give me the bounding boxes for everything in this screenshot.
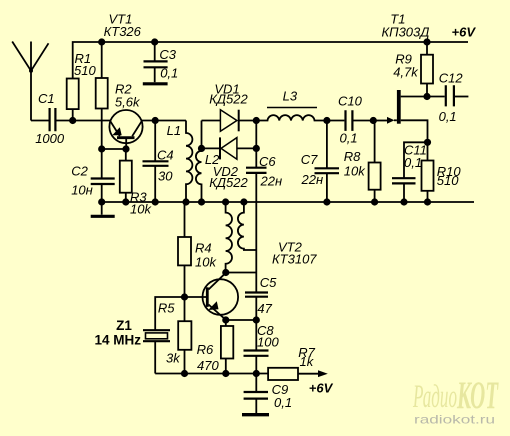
- svg-text:КД522: КД522: [209, 175, 248, 190]
- capacitor C1: [35, 91, 65, 146]
- node rail junctions: [98, 198, 431, 205]
- svg-text:0,1: 0,1: [160, 65, 178, 80]
- node C4 top junction: [152, 117, 159, 124]
- svg-text:0,1: 0,1: [404, 155, 422, 170]
- svg-text:R6: R6: [197, 342, 214, 357]
- capacitor C8: [244, 320, 280, 374]
- svg-text:C1: C1: [38, 91, 55, 106]
- capacitor C4: [143, 121, 174, 203]
- svg-text:510: 510: [437, 173, 459, 188]
- capacitor C9: [244, 374, 292, 410]
- svg-text:47: 47: [257, 301, 272, 316]
- svg-text:КД522: КД522: [209, 92, 248, 107]
- resistor R9: [393, 42, 433, 97]
- wire C1 to VT1 emitter: [56, 120, 110, 122]
- inductor lower winding B: [238, 202, 256, 250]
- node R9 top junction: [423, 38, 430, 45]
- capacitor C12: [427, 70, 468, 124]
- node bottom rail junctions: [181, 370, 260, 377]
- svg-text:10k: 10k: [130, 202, 152, 217]
- wire C6 line down to C5: [255, 250, 257, 292]
- capacitor C10: [327, 93, 373, 145]
- svg-text:КТ326: КТ326: [104, 24, 142, 39]
- diode VD1: [202, 81, 257, 131]
- inductor lower winding A: [226, 202, 232, 273]
- svg-text:C3: C3: [159, 47, 176, 62]
- svg-text:10k: 10k: [344, 164, 366, 179]
- svg-text:C7: C7: [301, 152, 318, 167]
- svg-text:22н: 22н: [301, 172, 324, 187]
- svg-text:КП303Д: КП303Д: [382, 25, 430, 40]
- svg-text:22н: 22н: [260, 174, 283, 189]
- watermark Радио КОТ: [412, 374, 499, 427]
- node C3 top junction: [151, 38, 158, 45]
- node C7 top junction: [323, 117, 330, 124]
- svg-text:Радио: Радио: [412, 379, 457, 415]
- resistor R3: [120, 149, 153, 217]
- svg-text:C2: C2: [71, 164, 88, 179]
- svg-text:10н: 10н: [71, 183, 93, 198]
- svg-text:5,6k: 5,6k: [115, 95, 141, 110]
- node R2 top junction: [98, 38, 105, 45]
- diode VD2: [202, 137, 257, 190]
- svg-text:100: 100: [257, 335, 279, 350]
- svg-text:КОТ: КОТ: [456, 374, 499, 417]
- svg-text:14 MHz: 14 MHz: [95, 333, 142, 348]
- svg-text:Z1: Z1: [116, 318, 132, 333]
- capacitor C6: [246, 121, 282, 251]
- resistor R4: [178, 202, 217, 297]
- svg-text:R8: R8: [344, 149, 361, 164]
- node L2 top junction: [198, 145, 205, 152]
- svg-text:КТ3107: КТ3107: [272, 252, 317, 267]
- resistor R6: [197, 320, 234, 374]
- ground under C2: [91, 202, 115, 216]
- node VD2 out junction: [253, 145, 260, 152]
- capacitor C11: [392, 142, 428, 202]
- wire VT2 base: [155, 297, 206, 330]
- node T1 drain junction: [423, 93, 430, 100]
- inductor L3: [256, 88, 327, 120]
- node R1 bottom junction: [69, 117, 76, 124]
- node base/R4 junction: [181, 293, 188, 300]
- resistor R10: [422, 142, 462, 202]
- svg-text:R4: R4: [195, 241, 212, 256]
- transistor VT1: [104, 12, 143, 149]
- node C5 bottom junction: [253, 316, 260, 323]
- wire top rail: [73, 42, 468, 79]
- capacitor C2: [71, 149, 115, 202]
- svg-text:radiokot.ru: radiokot.ru: [414, 413, 495, 427]
- wire R7 to +6V arrow: [298, 370, 328, 377]
- node VT1 base junction: [122, 145, 129, 152]
- wire VT1 collector to L1: [142, 120, 186, 122]
- transistor VT2: [203, 240, 318, 320]
- crystal Z1: [95, 318, 171, 374]
- svg-text:C5: C5: [260, 275, 277, 290]
- wire bottom rail: [155, 373, 268, 375]
- wire base jog: [102, 148, 126, 150]
- ground under C3: [143, 67, 168, 84]
- svg-text:30: 30: [158, 169, 173, 184]
- node R2/C2 junction: [98, 145, 105, 152]
- capacitor C7: [301, 121, 340, 203]
- svg-text:1k: 1k: [300, 354, 315, 369]
- svg-text:0,1: 0,1: [274, 395, 292, 410]
- svg-text:470: 470: [197, 358, 219, 373]
- svg-text:1000: 1000: [35, 131, 65, 146]
- resistor R7: [268, 345, 316, 380]
- svg-text:0,1: 0,1: [439, 109, 457, 124]
- antenna W1: [12, 42, 48, 121]
- resistor R1: [67, 51, 97, 121]
- node T1 source junction: [424, 139, 431, 146]
- svg-text:10k: 10k: [195, 255, 217, 270]
- wire antenna to C1: [31, 120, 49, 122]
- wire emitter jog: [226, 319, 256, 321]
- svg-text:4,7k: 4,7k: [393, 65, 419, 80]
- svg-text:C6: C6: [259, 154, 276, 169]
- inductor L2: [196, 121, 220, 203]
- svg-text:0,1: 0,1: [340, 131, 358, 146]
- svg-text:+6V: +6V: [452, 25, 477, 40]
- svg-text:L3: L3: [283, 88, 298, 103]
- resistor R2: [96, 42, 141, 149]
- svg-text:R5: R5: [158, 301, 175, 316]
- transistor T1 field-effect: [373, 11, 429, 142]
- svg-text:3k: 3k: [166, 351, 181, 366]
- wire ground rail: [102, 201, 474, 203]
- svg-text:C4: C4: [157, 148, 174, 163]
- resistor R8: [344, 121, 381, 203]
- svg-text:C12: C12: [439, 70, 464, 85]
- inductor L1: [167, 121, 193, 203]
- wire collector jog: [226, 272, 256, 274]
- svg-text:510: 510: [74, 63, 96, 78]
- node VT2 collector junction: [222, 269, 229, 276]
- node VT2 emitter junction: [222, 316, 229, 323]
- node VD1 out junction: [253, 117, 260, 124]
- ground under C9: [242, 399, 269, 415]
- svg-text:L1: L1: [167, 123, 181, 138]
- capacitor C3: [144, 42, 179, 80]
- node R8 top junction: [370, 117, 377, 124]
- resistor R5: [158, 297, 192, 374]
- capacitor C5: [245, 275, 277, 320]
- svg-text:+6V: +6V: [309, 381, 334, 396]
- svg-text:C10: C10: [338, 93, 363, 108]
